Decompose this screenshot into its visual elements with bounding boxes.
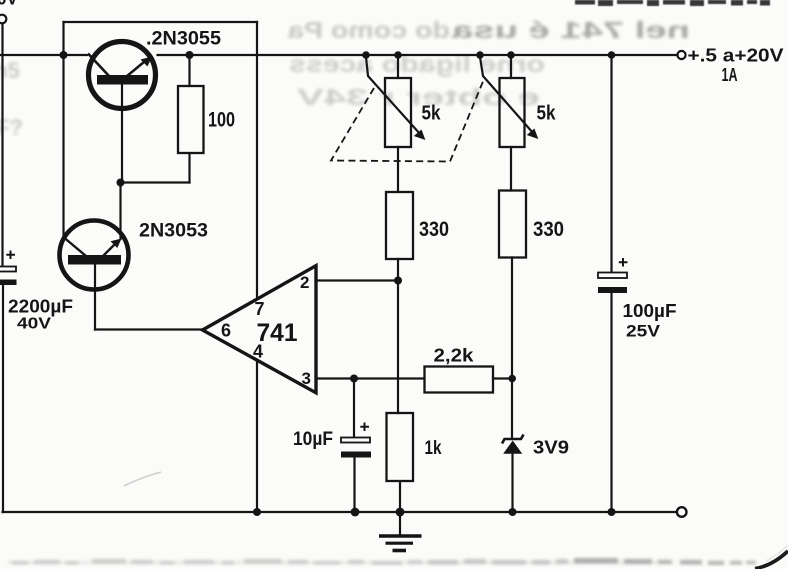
Q2 emitter lead with arrow bbox=[103, 242, 117, 256]
wire C3 bottom lead bbox=[610, 293, 612, 513]
wire op-amp pin 3 to R4 bbox=[316, 377, 425, 379]
resistor R3 330 bbox=[499, 191, 526, 258]
wire P2 to R3 bbox=[510, 147, 512, 191]
wire R4 right to zener node bbox=[493, 377, 512, 379]
node P1 top on rail bbox=[394, 51, 402, 59]
C2 plus sign bbox=[360, 423, 369, 432]
wire top rail y=22 bbox=[64, 21, 258, 23]
wire bottom ground rail bbox=[3, 511, 677, 513]
capacitor C3 100uF bbox=[598, 258, 628, 293]
wire left rail below 2200uF cap bbox=[2, 285, 4, 513]
wire riser x=63.5 (input rail up to top rail and down to Q2 collector) bbox=[62, 22, 64, 240]
Q2 collector lead bbox=[65, 238, 87, 256]
ground bbox=[379, 536, 422, 551]
C3 plus sign bbox=[619, 258, 628, 267]
capacitor C1 2200uF (plates, clipped at left edge) bbox=[0, 251, 17, 286]
svg-text:+.5 a+20V: +.5 a+20V bbox=[688, 45, 785, 66]
wire C2 top lead bbox=[353, 379, 355, 438]
node pin3 / C2 tap bbox=[350, 375, 358, 383]
resistor R2 330 bbox=[386, 192, 413, 259]
svg-text:10µF: 10µF bbox=[293, 429, 333, 450]
svg-text:2200µF: 2200µF bbox=[8, 297, 73, 317]
faint scratch above bottom rail bbox=[124, 472, 161, 486]
op-amp U1 741 triangle bbox=[203, 266, 317, 393]
bottom right page curl bbox=[755, 551, 788, 569]
capacitor C2 10uF bbox=[341, 423, 371, 458]
zener diode D1 3V9 bbox=[502, 435, 524, 454]
svg-text:3: 3 bbox=[302, 369, 311, 388]
potentiometer P2 5k bbox=[480, 57, 538, 147]
wire op-amp V- drop x=257 (pin 4 to ground rail) bbox=[256, 361, 258, 512]
Q1 collector lead bbox=[88, 54, 109, 77]
resistor R1 100 bbox=[178, 86, 204, 153]
svg-text:5k: 5k bbox=[537, 103, 557, 125]
svg-text:4: 4 bbox=[253, 342, 263, 362]
wire Q1 base lead down bbox=[121, 84, 123, 183]
wire op-amp pin 2 to divider node bbox=[316, 279, 398, 281]
node P1 wiper on rail bbox=[362, 51, 370, 59]
svg-text:7: 7 bbox=[255, 299, 265, 319]
svg-text:1k: 1k bbox=[425, 438, 442, 459]
C1 plus sign bbox=[6, 251, 15, 260]
terminal input 0V bbox=[0, 15, 6, 24]
resistor R5 1k bbox=[387, 413, 414, 481]
svg-text:nel 741 é usa: nel 741 é usa bbox=[452, 17, 690, 43]
node C3 on ground rail bbox=[608, 508, 616, 516]
wire pot P2 top lead bbox=[510, 55, 512, 78]
svg-text:do como Pa: do como Pa bbox=[288, 17, 450, 43]
node R1 top on rail bbox=[186, 51, 194, 59]
wire Q2 base lead down bbox=[94, 264, 96, 330]
wire pot P1 top lead bbox=[397, 55, 399, 78]
wire base node to R1 bottom (horizontal) bbox=[121, 181, 190, 183]
svg-text:1A: 1A bbox=[722, 65, 738, 85]
node C3 top on rail bbox=[608, 51, 616, 59]
wire op-amp V+ drop x=257 (pin 7) bbox=[256, 22, 258, 299]
wire main rail right segment (Q1 emitter to output) bbox=[158, 54, 678, 56]
wire R5 bottom lead bbox=[399, 481, 401, 512]
wire C2 bottom lead bbox=[353, 457, 355, 512]
svg-text:100: 100 bbox=[208, 109, 235, 132]
svg-text:2N3053: 2N3053 bbox=[139, 221, 208, 242]
wire P1 to R2 bbox=[397, 147, 399, 192]
node pin4 on ground rail bbox=[253, 508, 261, 516]
dark cut-off heading at top right bbox=[575, 0, 770, 6]
svg-text:330: 330 bbox=[533, 218, 564, 241]
wire R1 bottom lead bbox=[188, 153, 190, 183]
svg-text:2,2k: 2,2k bbox=[434, 346, 475, 366]
node zener on ground rail bbox=[509, 508, 517, 516]
svg-text:40V: 40V bbox=[17, 316, 51, 333]
svg-text:2: 2 bbox=[300, 273, 309, 292]
Q1 emitter lead with arrow bbox=[127, 60, 147, 77]
svg-text:330: 330 bbox=[419, 218, 449, 241]
node ground symbol on rail bbox=[396, 508, 405, 517]
svg-text:6: 6 bbox=[221, 321, 231, 341]
faint mirrored text rows bbox=[288, 17, 690, 110]
wire input terminal drop (left rail top) bbox=[1, 24, 3, 267]
transistor Q1 2N3055 bbox=[88, 42, 156, 109]
node C2 on ground rail bbox=[351, 508, 360, 517]
terminal output bottom right bbox=[677, 507, 687, 517]
wire R3 bottom through node down to zener bbox=[511, 258, 513, 439]
svg-text:3V9: 3V9 bbox=[533, 438, 569, 458]
wire Q2 emitter riser bbox=[119, 183, 121, 240]
node Q1 base / Q2 emitter / R1 bbox=[117, 179, 125, 187]
resistor R4 2,2k bbox=[425, 367, 494, 393]
wire R2 bottom through pin2 node down to R5 top bbox=[397, 259, 399, 413]
bottom bleed text band bbox=[8, 558, 756, 565]
svg-text:.2N3055: .2N3055 bbox=[146, 29, 221, 50]
terminal output +V top right bbox=[677, 51, 685, 59]
dashed gang coupling between P1 and P2 bbox=[331, 79, 484, 162]
svg-text:100µF: 100µF bbox=[623, 301, 677, 321]
wire zener anode to ground rail bbox=[511, 454, 513, 513]
svg-text:e obter r 34V: e obter r 34V bbox=[296, 84, 540, 110]
transistor Q2 2N3053 bbox=[60, 221, 129, 290]
wire R1 top lead bbox=[188, 55, 190, 86]
node input rail / top-rail riser bbox=[60, 51, 68, 59]
potentiometer P1 5k bbox=[366, 57, 425, 147]
wire main rail left segment (input to Q1 collector) bbox=[0, 54, 87, 56]
wire C3 top lead bbox=[610, 55, 612, 273]
svg-text:5k: 5k bbox=[422, 103, 442, 125]
svg-text:0V: 0V bbox=[0, 0, 18, 9]
wire ground stub bbox=[399, 512, 401, 535]
faint left margin marks bbox=[0, 58, 23, 140]
node pin2 / divider bbox=[394, 277, 402, 285]
node P2 wiper on rail bbox=[476, 51, 484, 59]
node P2 top on rail bbox=[507, 51, 515, 59]
wire op-amp output pin 6 to Q2 base bbox=[95, 328, 202, 330]
svg-text:25V: 25V bbox=[626, 322, 661, 341]
node R4 / zener / R3 bbox=[508, 375, 516, 383]
